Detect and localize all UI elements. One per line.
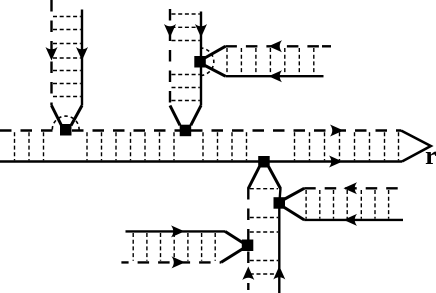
arrow down on ladder2 left rail [164, 24, 176, 38]
ladder2 left rail (dashed) [169, 9, 171, 106]
label r [426, 152, 436, 164]
arrow down on ladder1 right rail [76, 47, 88, 61]
arrow right on branch C lower rail [172, 256, 186, 268]
branch B rungs [306, 190, 389, 219]
ladder3 rungs [250, 189, 278, 274]
branch C upper slant [225, 231, 244, 243]
dashed arc around S3 [200, 48, 214, 76]
arrow left on branch B upper rail [344, 182, 358, 194]
ladder3 right rail (solid) [279, 188, 280, 293]
branch C upper rail (solid) [126, 230, 226, 232]
vertex square S2 on main top rail [180, 125, 192, 137]
branch A upper rail (dashed) [225, 45, 319, 47]
ladder2 rungs [172, 14, 200, 101]
arrow down on ladder2 right rail [195, 24, 207, 38]
arrow left on branch B lower rail [344, 214, 358, 226]
main ladder rungs (short-dash verticals) [15, 132, 399, 160]
ladder1 V converge [52, 106, 83, 126]
ladder1 rungs [53, 17, 81, 97]
branch A upper slant [203, 46, 225, 59]
arrow right on main bottom rail [329, 156, 343, 168]
ladder3 inverted V [248, 167, 280, 189]
branch C rungs [133, 233, 215, 261]
branch B lower slant [282, 206, 304, 220]
vertex square S6 on ladder3 left rail [242, 240, 254, 252]
vertex square S1 [60, 124, 72, 136]
ladder3 left rail (dashed) [247, 188, 249, 240]
branch C lower rail (dashed) [121, 261, 221, 263]
arrow left on branch A lower rail [269, 70, 283, 82]
branch B upper rail (dashed) [304, 187, 405, 189]
arrow down on ladder1 left rail [46, 47, 58, 61]
vertex square S4 on main bottom rail [258, 156, 270, 168]
ladder2 V converge [170, 106, 201, 126]
branch C lower slant [221, 248, 244, 262]
ladder1 left rail (dashed) [50, 0, 52, 106]
ladder1 right rail (solid) [81, 10, 83, 106]
arrow right on main top rail [330, 125, 344, 137]
arrow up on ladder3 right rail [273, 266, 285, 280]
branch A lower slant [203, 65, 225, 77]
vertex square S5 on ladder3 right rail [274, 197, 286, 209]
dashed arc around S1 [52, 116, 79, 129]
main ladder top rail (dashed) [0, 129, 60, 131]
arrow up on ladder3 left rail [242, 267, 254, 281]
ladder2 right rail (solid) [200, 12, 202, 106]
main ladder right tip [401, 131, 431, 162]
vertex square S3 on ladder2 right rail [194, 56, 206, 68]
branch B upper slant [282, 188, 304, 200]
branch B lower rail (solid) [304, 219, 403, 221]
arrow left on branch A upper rail [269, 40, 283, 52]
branch A lower rail (solid) [225, 75, 323, 77]
main ladder bottom rail (solid) [0, 160, 402, 162]
branch A rungs [227, 48, 314, 75]
arrow right on branch C upper rail [171, 225, 185, 237]
